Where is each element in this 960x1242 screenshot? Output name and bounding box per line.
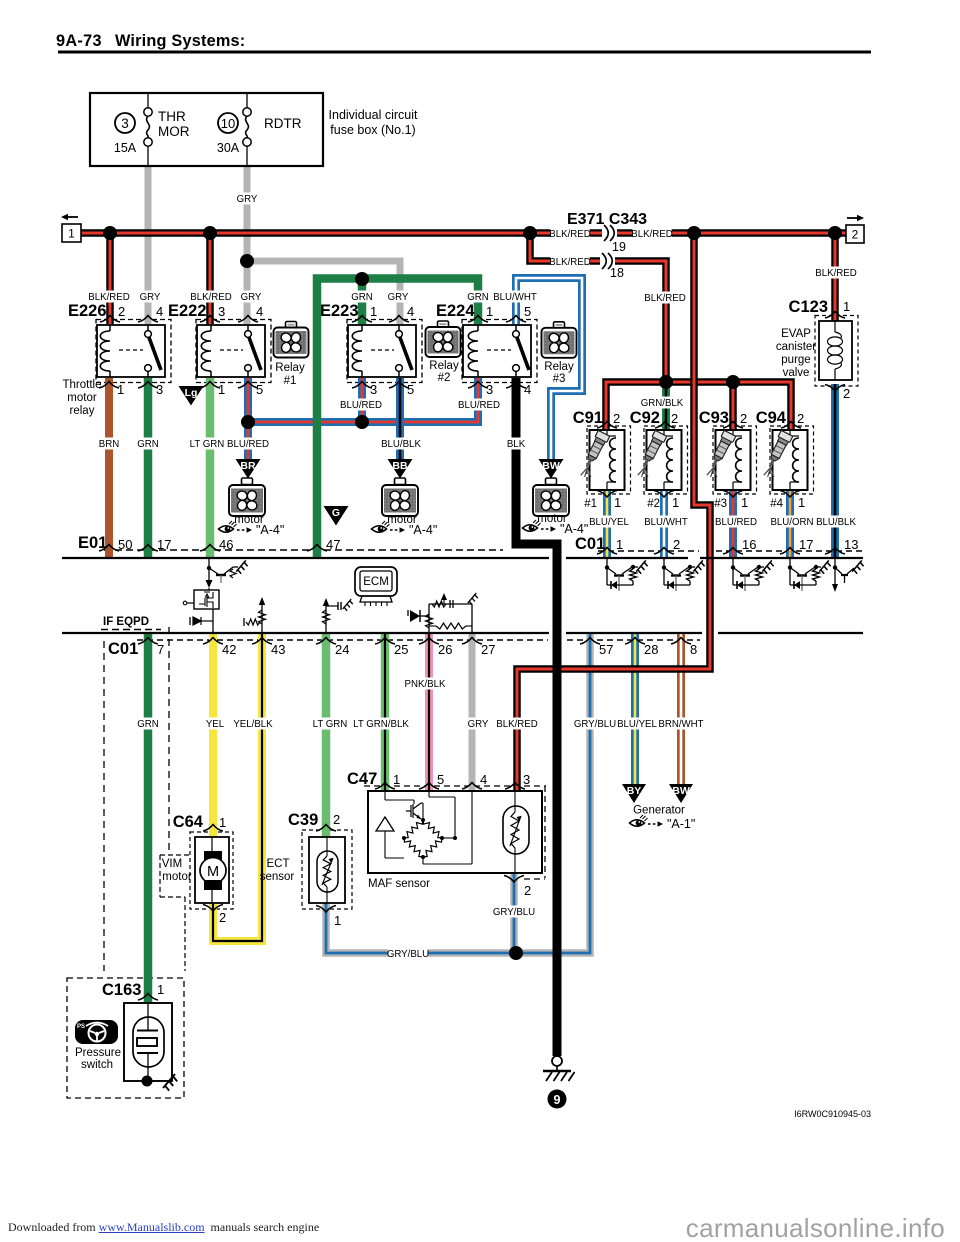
wire BLK/RED bus to E226-2 xyxy=(106,233,114,324)
ECM driver pin C01-17 xyxy=(789,559,791,585)
svg-text:E226: E226 xyxy=(68,302,107,320)
svg-text:C01: C01 xyxy=(575,535,605,553)
wire GRN C01-7 to C163-1 xyxy=(144,633,153,1003)
svg-text:5: 5 xyxy=(256,382,263,397)
svg-text:I6RW0C910945-03: I6RW0C910945-03 xyxy=(794,1109,871,1119)
relay E222 pin 1 xyxy=(200,382,220,389)
svg-text:C39: C39 xyxy=(288,811,318,829)
svg-text:BLK/RED: BLK/RED xyxy=(496,719,537,730)
relay E226 pin 4 xyxy=(138,316,158,323)
svg-text:motor: motor xyxy=(67,392,97,404)
svg-text:3: 3 xyxy=(370,382,377,397)
svg-text:BY: BY xyxy=(627,785,642,797)
relay E226 pin 2 xyxy=(100,316,120,323)
svg-text:EVAP: EVAP xyxy=(781,328,811,340)
relay E226 coil xyxy=(109,325,111,331)
svg-text:LT GRN: LT GRN xyxy=(190,439,225,450)
svg-text:15A: 15A xyxy=(114,141,137,155)
svg-text:Pressure: Pressure xyxy=(75,1047,121,1059)
wire BLK/RED bus to E222-3 xyxy=(206,233,214,324)
svg-text:42: 42 xyxy=(222,642,236,657)
svg-text:25: 25 xyxy=(394,642,408,657)
relay E226 mech link xyxy=(119,349,143,351)
transition 19 xyxy=(602,225,617,241)
svg-text:43: 43 xyxy=(271,642,285,657)
wire BLU/RED rail y=422 xyxy=(248,378,478,422)
svg-text:3: 3 xyxy=(486,382,493,397)
wire BLK/RED bus to C123-1 xyxy=(831,233,839,323)
relay E224 box xyxy=(463,325,531,377)
splice BR xyxy=(236,459,261,479)
relay icon Relay #3 xyxy=(554,322,565,329)
svg-text:5: 5 xyxy=(407,382,414,397)
wire LT GRN/BLK C01-25 to C47-1 xyxy=(381,633,390,791)
main bus BLK/RED xyxy=(81,229,846,237)
svg-text:13: 13 xyxy=(844,537,858,552)
ECM driver pin C01-1 xyxy=(606,559,608,585)
junction bus E226 xyxy=(103,226,117,240)
svg-text:#2: #2 xyxy=(438,372,451,384)
svg-text:valve: valve xyxy=(783,367,810,379)
svg-text:8: 8 xyxy=(690,642,697,657)
svg-text:motor: motor xyxy=(162,871,192,883)
label YEL xyxy=(205,718,224,730)
svg-text:E222: E222 xyxy=(168,302,207,320)
relay E224 switch xyxy=(515,325,517,331)
svg-text:3: 3 xyxy=(218,304,225,319)
label GRN lower xyxy=(138,718,157,730)
svg-text:2: 2 xyxy=(671,411,678,426)
svg-text:2: 2 xyxy=(740,411,747,426)
wire BLK/RED rail to C93-2 xyxy=(729,382,737,430)
MAF sensor box xyxy=(368,791,542,873)
relay E223 pin 4 xyxy=(389,316,409,323)
svg-text:THR: THR xyxy=(158,109,186,124)
wire BLU/YEL C91-1 to C01-1 xyxy=(603,490,611,558)
label BLK/RED C47 xyxy=(497,718,536,730)
ECM module label xyxy=(355,567,397,596)
ground 9 badge xyxy=(548,1090,567,1109)
label BLK/RED E226-2 xyxy=(89,291,128,303)
svg-text:17: 17 xyxy=(799,537,813,552)
svg-text:1: 1 xyxy=(798,495,805,510)
label GRY lower xyxy=(468,718,487,730)
wire BLK/RED long feed bus to C47-3 xyxy=(517,233,710,790)
svg-text:#2: #2 xyxy=(647,498,660,510)
svg-text:GRN/BLK: GRN/BLK xyxy=(641,398,684,409)
injector C93 xyxy=(716,430,751,490)
fuse 10 element xyxy=(246,93,248,108)
svg-text:BRN/WHT: BRN/WHT xyxy=(658,719,703,730)
junction bus 18-line xyxy=(523,226,537,240)
svg-text:Individual circuit: Individual circuit xyxy=(329,108,418,122)
ground 9 terminal xyxy=(552,1056,562,1066)
wire BLU/WHT staple E224 pin 5 xyxy=(516,278,582,459)
svg-text:BLU/RED: BLU/RED xyxy=(340,400,382,411)
relay icon Relay #2 xyxy=(438,321,449,328)
splice Lg xyxy=(179,386,204,406)
svg-text:BLU/WHT: BLU/WHT xyxy=(644,517,688,528)
relay E224 pin 5 xyxy=(506,316,526,323)
label BLK xyxy=(506,438,525,450)
pressure switch box xyxy=(124,1003,172,1081)
label BRN xyxy=(99,438,118,450)
label GRY/BLU horizontal xyxy=(388,948,427,960)
svg-text:ECM: ECM xyxy=(363,576,389,588)
svg-text:2: 2 xyxy=(852,228,859,242)
svg-text:47: 47 xyxy=(326,537,340,552)
ECM driver pin C01-16 xyxy=(732,559,734,585)
svg-text:1: 1 xyxy=(486,304,493,319)
ECM circuit pins 26 27 xyxy=(407,610,409,616)
relay E226 switch xyxy=(147,325,149,331)
svg-text:5: 5 xyxy=(524,304,531,319)
svg-text:2: 2 xyxy=(797,411,804,426)
svg-text:2: 2 xyxy=(673,537,680,552)
svg-text:BLK/RED: BLK/RED xyxy=(549,257,590,268)
svg-text:C01: C01 xyxy=(108,640,138,658)
label GRY/BLU MAF xyxy=(494,906,533,918)
wire GRN/BLK rail to C92-2 xyxy=(662,382,670,430)
svg-text:C163: C163 xyxy=(102,981,141,999)
svg-text:4: 4 xyxy=(524,382,531,397)
svg-text:1: 1 xyxy=(370,304,377,319)
svg-text:2: 2 xyxy=(333,812,340,827)
relay E223 pin 5 xyxy=(389,382,409,389)
svg-text:BLU/RED: BLU/RED xyxy=(458,400,500,411)
svg-text:C123: C123 xyxy=(789,298,828,316)
relay E222 pin 4 xyxy=(238,316,258,323)
dashed connector outlines and rows xyxy=(96,320,171,383)
injector C94 xyxy=(773,430,808,490)
svg-text:GRN: GRN xyxy=(137,719,159,730)
relay E226 box xyxy=(97,325,165,377)
svg-text:9A-73: 9A-73 xyxy=(56,32,102,50)
svg-text:BB: BB xyxy=(392,460,408,472)
ECM band bottom line xyxy=(62,632,863,634)
label GRN xyxy=(138,438,157,450)
svg-text:VIM: VIM xyxy=(162,858,182,870)
C163 ground xyxy=(142,1076,153,1087)
ECM driver pin C01-2 xyxy=(663,559,665,585)
label YEL/BLK xyxy=(233,718,272,730)
ECM band top line xyxy=(62,557,863,559)
svg-text:1: 1 xyxy=(672,495,679,510)
svg-text:"A-4": "A-4" xyxy=(409,523,437,537)
wire BRN/WHT C01-8 to BW generator xyxy=(677,633,685,784)
label BRN/WHT xyxy=(661,718,700,730)
svg-text:C93: C93 xyxy=(699,409,729,427)
motor icon radiator fan 2 xyxy=(395,478,406,485)
EVAP valve box xyxy=(819,321,852,380)
svg-text:26: 26 xyxy=(438,642,452,657)
svg-text:1: 1 xyxy=(843,299,850,314)
svg-text:BLU/WHT: BLU/WHT xyxy=(493,292,537,303)
relay E223 box xyxy=(348,325,416,377)
svg-text:Relay: Relay xyxy=(429,360,459,372)
svg-text:3: 3 xyxy=(523,772,530,787)
svg-text:BLK/RED: BLK/RED xyxy=(644,293,685,304)
svg-text:E223: E223 xyxy=(320,302,359,320)
svg-text:2: 2 xyxy=(524,883,531,898)
junction bus feed xyxy=(687,226,701,240)
wire BLU/WHT C92-1 to C01-2 xyxy=(660,490,668,558)
svg-text:C64: C64 xyxy=(173,813,204,831)
svg-text:GRY: GRY xyxy=(468,719,489,730)
svg-text:fuse box (No.1): fuse box (No.1) xyxy=(330,123,415,137)
VIM motor box xyxy=(195,837,229,903)
svg-text:2: 2 xyxy=(118,304,125,319)
wire GRY C01-27 to C47-4 xyxy=(469,633,476,791)
svg-text:1: 1 xyxy=(614,495,621,510)
svg-text:30A: 30A xyxy=(217,141,240,155)
wire BLK/RED injector rail y=382 xyxy=(606,382,791,430)
eye A-1 generator xyxy=(630,820,645,827)
label LT GRN xyxy=(190,438,224,450)
svg-text:RDTR: RDTR xyxy=(264,116,302,131)
relay E223 coil xyxy=(361,325,363,331)
C39 pin 1 xyxy=(316,906,336,913)
svg-text:19: 19 xyxy=(612,240,626,254)
svg-text:24: 24 xyxy=(335,642,349,657)
splice BB xyxy=(388,459,413,479)
svg-text:"A-1": "A-1" xyxy=(667,817,695,831)
splice BW generator xyxy=(669,784,693,803)
svg-text:16: 16 xyxy=(742,537,756,552)
relay E223 switch xyxy=(398,325,400,331)
svg-text:E224: E224 xyxy=(436,302,475,320)
wire GRY from fuse 3 to E226 pin 4 xyxy=(145,166,152,324)
label BLU/RED E224-3 xyxy=(459,399,498,411)
svg-text:27: 27 xyxy=(481,642,495,657)
PS icon xyxy=(75,1020,118,1044)
svg-text:Wiring Systems:: Wiring Systems: xyxy=(115,32,245,50)
svg-text:1: 1 xyxy=(218,382,225,397)
svg-text:46: 46 xyxy=(219,537,233,552)
svg-text:sensor: sensor xyxy=(260,871,295,883)
label BLK/RED E222-3 xyxy=(191,291,230,303)
connector terminal 1 xyxy=(62,224,81,242)
label BLU/RED E223-3 xyxy=(341,399,380,411)
splice G xyxy=(324,506,349,526)
wire BLU/ORN C94-1 to C01-17 xyxy=(786,490,794,558)
svg-text:1: 1 xyxy=(741,495,748,510)
label LT GRN lower xyxy=(313,718,347,730)
ECT sensor box xyxy=(309,837,345,903)
svg-text:Generator: Generator xyxy=(633,805,685,817)
svg-text:BLK: BLK xyxy=(507,439,526,450)
junction bus E222 xyxy=(203,226,217,240)
relay E222 pin 5 xyxy=(238,382,258,389)
svg-text:MAF sensor: MAF sensor xyxy=(368,878,430,890)
svg-text:GRY/BLU: GRY/BLU xyxy=(574,719,616,730)
label GRY E223-4 xyxy=(388,291,407,303)
relay E223 pin 3 xyxy=(352,382,372,389)
svg-text:BW: BW xyxy=(672,785,690,797)
wire YEL/BLK C01-43 to C64-2 xyxy=(213,633,262,941)
svg-text:canister: canister xyxy=(776,341,816,353)
svg-text:IF EQPD: IF EQPD xyxy=(103,616,149,628)
svg-text:50: 50 xyxy=(118,537,132,552)
svg-text:4: 4 xyxy=(407,304,414,319)
motor icon radiator fan 1 xyxy=(242,478,253,485)
svg-text:2: 2 xyxy=(219,910,226,925)
svg-text:switch: switch xyxy=(81,1059,113,1071)
svg-text:28: 28 xyxy=(644,642,658,657)
svg-text:1: 1 xyxy=(616,537,623,552)
svg-text:BR: BR xyxy=(240,460,256,472)
wire GRN net E223-1 / E224-1 / E01-47 xyxy=(317,279,478,559)
wire BLU/RED C93-1 to C01-16 xyxy=(729,490,737,558)
svg-text:C92: C92 xyxy=(630,409,660,427)
svg-text:LT GRN/BLK: LT GRN/BLK xyxy=(353,719,409,730)
junction GRY/BLU xyxy=(509,946,523,960)
svg-text:7: 7 xyxy=(157,642,164,657)
wire BLK/RED 18-line to injector rail xyxy=(530,233,666,382)
label BLK/RED C123 xyxy=(816,267,855,279)
svg-text:GRN: GRN xyxy=(137,439,159,450)
svg-text:#3: #3 xyxy=(553,373,566,385)
wire BLK E224-4 to ground 9 xyxy=(516,378,557,1056)
svg-text:BLU/YEL: BLU/YEL xyxy=(589,517,629,528)
relay E223 pin 1 xyxy=(352,316,372,323)
svg-text:Relay: Relay xyxy=(275,362,305,374)
junction rail C91/C92 xyxy=(659,375,673,389)
wire YEL C01-42 to C64-1 xyxy=(209,633,217,837)
svg-text:2: 2 xyxy=(843,386,850,401)
svg-text:1: 1 xyxy=(68,227,75,241)
label GRN/BLK xyxy=(642,397,681,409)
svg-text:BW: BW xyxy=(542,460,560,472)
ECM driver circuit pin 46 xyxy=(208,558,210,580)
label GRY E222-4 xyxy=(241,291,260,303)
svg-text:GRY/BLU: GRY/BLU xyxy=(387,949,429,960)
label GRN E224-1 xyxy=(468,291,487,303)
eye A-4 motor 2 xyxy=(372,526,387,533)
svg-text:3: 3 xyxy=(156,382,163,397)
labels injector wire colors xyxy=(589,516,628,528)
junction bus C123 xyxy=(828,226,842,240)
svg-text:#3: #3 xyxy=(714,498,727,510)
splice BY generator xyxy=(622,784,646,803)
svg-text:3: 3 xyxy=(121,116,129,131)
relay E223 mech link xyxy=(371,349,394,351)
svg-text:YEL/BLK: YEL/BLK xyxy=(233,719,273,730)
svg-text:YEL: YEL xyxy=(206,719,225,730)
relay E224 pin 4 xyxy=(506,382,526,389)
svg-text:4: 4 xyxy=(156,304,163,319)
label GRY fuse wire xyxy=(237,193,256,205)
junction rail C93 xyxy=(726,375,740,389)
C64 pin 2 xyxy=(203,905,223,912)
title rule xyxy=(58,51,871,54)
wire BLU/YEL C01-28 to BY generator xyxy=(631,633,639,784)
C123 pin 2 xyxy=(825,385,845,392)
label BLU/WHT E224-5 xyxy=(495,291,534,303)
ECM circuit pin 24 xyxy=(325,602,327,633)
svg-text:#1: #1 xyxy=(584,498,597,510)
svg-text:BLK/RED: BLK/RED xyxy=(631,229,672,240)
svg-text:Throttle: Throttle xyxy=(63,379,102,391)
svg-text:17: 17 xyxy=(157,537,171,552)
svg-text:10: 10 xyxy=(221,116,235,131)
label PNK/BLK xyxy=(405,678,444,690)
label BLU/YEL generator xyxy=(617,718,656,730)
junction BLU/RED E222-5 xyxy=(241,415,255,429)
svg-text:BLK/RED: BLK/RED xyxy=(815,268,856,279)
svg-text:2: 2 xyxy=(613,411,620,426)
fuse 10 circle xyxy=(218,113,238,133)
wire BLU/BLK E223-5 down to BB xyxy=(396,378,404,459)
eye A-4 motor 3 xyxy=(523,525,538,532)
MAF pin 2 xyxy=(504,876,524,883)
MAF internals xyxy=(384,791,386,800)
svg-text:Lg: Lg xyxy=(185,387,198,399)
wire GRN E226-3 to E01-17 xyxy=(144,378,153,558)
junction GRY branch xyxy=(240,254,254,268)
svg-text:G: G xyxy=(332,507,340,519)
relay E226 pin 3 xyxy=(138,382,158,389)
relay icon Relay #1 xyxy=(286,322,297,329)
svg-text:GRY: GRY xyxy=(241,292,262,303)
relay E222 switch xyxy=(247,325,249,331)
eye A-4 motor 1 xyxy=(219,526,234,533)
svg-text:C47: C47 xyxy=(347,770,377,788)
svg-text:Relay: Relay xyxy=(544,361,574,373)
svg-text:relay: relay xyxy=(70,405,95,417)
svg-text:GRY: GRY xyxy=(388,292,409,303)
fuse box outline xyxy=(90,93,323,166)
svg-text:1: 1 xyxy=(393,772,400,787)
svg-text:BLK/RED: BLK/RED xyxy=(549,229,590,240)
connector terminal 2 xyxy=(846,225,864,243)
svg-text:ECT: ECT xyxy=(267,858,290,870)
svg-text:BRN: BRN xyxy=(99,439,119,450)
svg-text:C91: C91 xyxy=(573,409,603,427)
svg-text:18: 18 xyxy=(610,266,624,280)
wire LT GRN E222-1 to E01-46 xyxy=(206,378,215,558)
wire BRN E226-1 to E01-50 xyxy=(105,378,113,558)
svg-text:PNK/BLK: PNK/BLK xyxy=(405,679,446,690)
label BLU/RED E222-5 xyxy=(228,438,267,450)
svg-text:1: 1 xyxy=(117,382,124,397)
fuse 3 circle xyxy=(115,113,135,133)
svg-text:"A-4": "A-4" xyxy=(256,523,284,537)
svg-text:C94: C94 xyxy=(756,409,787,427)
label GRY/BLU xyxy=(575,718,614,730)
splice BW xyxy=(539,459,564,479)
svg-text:1: 1 xyxy=(219,815,226,830)
ECM circuit pin 43 xyxy=(261,600,263,633)
svg-text:BLU/YEL: BLU/YEL xyxy=(617,719,657,730)
relay E222 coil xyxy=(210,325,212,331)
svg-text:M: M xyxy=(207,864,219,880)
injector C91 xyxy=(590,430,625,490)
ECM MOSFET pin 42 xyxy=(194,590,219,609)
svg-text:1: 1 xyxy=(334,913,341,928)
relay E222 pin 3 xyxy=(200,316,220,323)
relay E222 box xyxy=(197,325,265,377)
wire PNK/BLK C01-26 to C47-5 xyxy=(425,633,433,791)
relay E224 mech link xyxy=(487,349,511,351)
svg-text:GRY: GRY xyxy=(140,292,161,303)
relay E224 pin 3 xyxy=(468,382,488,389)
ECM driver pin C01-13 xyxy=(834,559,836,585)
relay E224 coil xyxy=(477,325,479,331)
svg-text:#4: #4 xyxy=(770,498,783,510)
svg-text:MOR: MOR xyxy=(158,124,190,139)
label GRN E223-1 xyxy=(352,291,371,303)
